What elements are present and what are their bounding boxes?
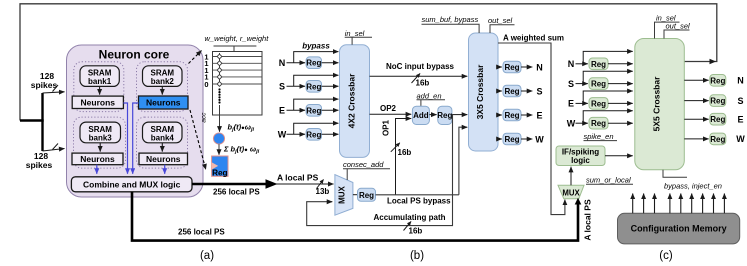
svg-text:E: E [568,99,574,109]
svg-text:OP2: OP2 [380,104,397,113]
group: dotted pair box bank3 [74,117,126,168]
wire: spike feedback loop (5X5 crossbar output to top border, down left side) [20,4,717,121]
svg-text:Reg: Reg [504,111,519,120]
wire: local PS bypass vertical into crossbar [459,127,467,195]
wire: out_sel control (c) [664,30,690,39]
svg-text:spikes: spikes [31,80,58,90]
block: Configuration Memory [618,213,740,244]
node: thick arrowhead (b) [266,179,278,189]
svg-text:Reg: Reg [306,82,321,91]
label: bit values 1 1 1 1 0 [204,52,208,89]
wire: consec_add control [343,168,390,170]
wire: w_weight/r_weight bracket into array [214,45,257,47]
svg-text:w_weight, r_weight: w_weight, r_weight [205,34,270,43]
svg-text:Reg: Reg [591,60,606,69]
wire: dashed zoom callout to accumulator Reg [190,110,206,170]
wire: W bypass over Reg (c) [583,111,633,123]
wire: SRAM bank1 to Neurons [99,86,101,94]
wire: Neurons bank4 to Combine (blue) [164,165,166,174]
wire: E input to Reg (b) [287,109,306,111]
wire: out_sel control (b) [490,25,515,33]
wire: N input to Reg (c) [576,63,588,65]
block: out Reg N (c) [710,75,726,87]
svg-text:MUX: MUX [337,185,346,203]
block: Combine and MUX logic [71,177,192,192]
wire: 3X5 to out Reg N [498,66,502,68]
wire: accumulate column line [219,53,221,87]
wire: 5X5 to out Reg E [684,118,708,120]
wire: Neurons bank3 to Combine (blue) [96,165,98,174]
block: IF/spiking logic [556,146,605,166]
wire: SRAM bank2 to Neurons [161,86,163,94]
svg-text:S: S [568,79,574,89]
svg-text:Reg: Reg [591,80,606,89]
block: local PS Reg (b) [358,188,376,201]
svg-text:NoC input bypass: NoC input bypass [386,62,455,71]
wire: out Reg S to port (b) [521,90,532,92]
svg-text:sum_or_local: sum_or_local [586,175,631,184]
wire: E bypass over Reg (b) [294,99,339,110]
wire: 3X5 to out Reg E [498,114,502,116]
block: input Reg S (c) [589,78,608,90]
svg-text:3X5 Crossbar: 3X5 Crossbar [475,64,485,119]
wire: SRAM bank3 to Neurons [99,143,101,152]
svg-text:256 local PS: 256 local PS [178,227,225,236]
wire: MUX to IF/spiking logic [570,167,572,186]
svg-text:acc: acc [201,112,208,123]
block: input Reg S (b) [306,81,321,93]
node: bus slash on accumulating path [404,222,412,231]
wire: A local PS thin wire into MUX [276,183,334,185]
node: arrowhead into sum MUX (c) [575,198,582,205]
svg-text:16b: 16b [409,226,423,235]
group: dotted pair box bank4 [137,117,188,168]
svg-text:S: S [279,82,285,92]
svg-text:4X2 Crossbar: 4X2 Crossbar [347,73,357,128]
block: out Reg N (b) [503,61,521,73]
wire: Add to Reg [429,114,436,116]
wire: NoC input bypass line to 3X5 crossbar [370,75,468,77]
svg-text:Σ bj(t)● ωji: Σ bj(t)● ωji [223,144,260,155]
wire: adder Reg to 3X5 crossbar [452,114,467,116]
svg-text:Neurons: Neurons [146,98,181,108]
wire: W input to Reg (c) [576,122,588,124]
wire: 5X5 to out Reg W [684,138,708,140]
block: input Reg W (c) [589,117,608,129]
wire: thick spike bus split (128 spikes) [20,93,44,151]
svg-text:Reg: Reg [504,63,519,72]
svg-text:Reg: Reg [591,119,606,128]
block: weight memory array [213,52,263,116]
wire: N input to Reg (b) [287,62,306,64]
wire: 3X5 to out Reg W [498,138,502,140]
svg-text:bank2: bank2 [151,77,175,86]
svg-text:5X5 Crossbar: 5X5 Crossbar [652,76,662,131]
block: 5X5 Crossbar [635,39,685,170]
wire: S input to Reg (b) [287,85,306,87]
block: Neurons highlighted (bank2) [139,96,189,109]
block: Neurons (bank4) [139,153,188,165]
svg-text:out_sel: out_sel [666,21,691,30]
svg-text:(a): (a) [200,250,214,262]
wire: S input to Reg (c) [576,83,588,85]
svg-text:N: N [737,76,744,86]
block: out Reg E (c) [710,113,726,125]
svg-text:bank3: bank3 [89,133,113,142]
wire: 256 local PS thick arrow (to section b) [192,183,266,186]
node: synapse diamond row5 [217,82,222,87]
wire: S bypass over Reg (b) [294,75,339,86]
block: 3X5 Crossbar [469,33,499,151]
svg-text:Reg: Reg [212,168,227,177]
block: input Reg W (b) [306,129,321,141]
svg-text:N: N [568,59,575,69]
block: Neurons (bank3) [72,153,123,165]
wire: 5X5 to out Reg S [684,100,708,102]
wire: IF/spiking logic to 5X5 crossbar [605,155,633,157]
svg-text:A local PS: A local PS [583,199,593,241]
node: synapse diamond row3 [217,68,222,73]
wire: Reg W to crossbar (b) [322,133,339,135]
wire: A weighted sum line to green MUX [498,43,565,215]
wire: N bypass over Reg (b) [294,52,339,63]
svg-text:Neuron core: Neuron core [99,48,170,62]
svg-text:Configuration Memory: Configuration Memory [631,224,727,234]
svg-text:E: E [737,115,743,125]
wire: sum_or_local underline [586,183,633,185]
block: input Reg E (c) [589,98,608,110]
wire: S bypass over Reg (c) [583,71,633,83]
block: SRAM bank3 [80,122,121,143]
block: out Reg S (b) [503,85,521,97]
block: Neurons (bank1) [72,96,123,108]
node: synapse diamond row2 [217,61,222,66]
svg-text:0: 0 [204,80,208,89]
wire: word line row 4 [213,76,263,78]
svg-text:out_sel: out_sel [488,16,513,25]
wire: consec_add drop into MUX [346,169,348,180]
svg-text:A local PS: A local PS [277,172,319,182]
svg-text:N: N [279,58,286,68]
wire: config stub from 5X5 bottom [663,170,687,178]
svg-text:Add: Add [413,111,429,120]
wire: N bypass over Reg (c) [583,51,633,63]
wire: W input to Reg (b) [287,133,306,135]
label: 128 spikes (lower) [26,151,53,170]
wire: array to accumulator circle [219,105,221,132]
svg-text:spikes: spikes [26,160,53,170]
wire: 256 local PS thick bus (bottom, to section c MUX) [132,192,578,241]
svg-text:A weighted sum: A weighted sum [503,33,564,42]
block: SRAM bank1 [80,66,119,87]
svg-text:Neurons: Neurons [146,154,181,164]
wire: circle to Reg [218,144,220,155]
svg-text:bank4: bank4 [151,133,175,142]
svg-text:Reg: Reg [437,111,452,120]
wire: OP2 output to Add [370,113,412,115]
block: out Reg E (b) [503,109,521,121]
wire: E input to Reg (c) [576,102,588,104]
svg-text:Reg: Reg [591,99,606,108]
group: dotted pair box bank2 [137,62,188,112]
wire: accumulating path (Reg output down and back to MUX) [307,115,453,226]
wire: out Reg N to port (b) [521,66,532,68]
wire: config control arrows [633,194,725,214]
wire: neurons bus left (blue) [123,103,127,174]
group: dotted pair box bank1 [74,62,124,112]
svg-text:S: S [737,96,743,106]
svg-text:sum_buf, bypass: sum_buf, bypass [422,15,479,24]
wire: out Reg W to port (b) [521,138,532,140]
svg-text:W: W [567,119,576,129]
svg-text:N: N [536,62,543,72]
svg-text:spike_en: spike_en [584,132,614,141]
wire: 3X5 to out Reg S [498,90,502,92]
label: 128 spikes (upper) [31,71,58,90]
wire: word line row 2 [213,62,263,64]
wire: word line row 1 [213,56,263,58]
svg-text:13b: 13b [316,187,330,196]
node: synapse diamond row1 [217,54,222,59]
wire: dashed zoom callout to weight array [189,51,202,64]
block: 4X2 Crossbar [340,45,370,158]
svg-text:W: W [278,130,287,140]
svg-text:(c): (c) [659,250,673,262]
block: accumulator Reg (blue square with clock notch) [212,156,228,177]
node: bus slash 16b on NoC line [412,74,421,84]
wire: 128 spikes arrow (upper) into neuron core [43,85,65,93]
wire: in_sel control into crossbar [345,36,372,38]
wire: Reg W to 5X5 crossbar [608,122,633,124]
svg-text:bj(t)●ωji: bj(t)●ωji [228,123,255,134]
wire: OP1 feedback up into Add [396,119,412,195]
block: SRAM bank2 [143,66,183,87]
wire: Reg E to 5X5 crossbar [608,102,633,104]
svg-text:Reg: Reg [359,191,374,200]
svg-text:Neurons: Neurons [81,97,116,107]
block: out Reg S (c) [710,95,726,107]
block: input Reg N (b) [306,57,321,69]
wire: out Reg E to port (b) [521,114,532,116]
block: out Reg W (b) [503,133,521,145]
wire: spike_en underline [584,140,618,142]
svg-text:OP1: OP1 [382,119,391,136]
wire: word line row 5 [213,83,263,85]
svg-text:Reg: Reg [306,130,321,139]
svg-text:Accumulating path: Accumulating path [374,213,446,222]
svg-text:E: E [279,106,285,116]
svg-text:256 local PS: 256 local PS [213,188,260,197]
svg-text:E: E [536,110,542,120]
wire: 5X5 to out Reg N [684,79,708,81]
block: input Reg N (c) [589,58,608,70]
wire: add_en drop [420,100,422,107]
node: synapse diamond row4 [217,74,222,79]
wire: in_sel drop [351,37,353,44]
wire: add_en control [417,99,446,101]
svg-text:Reg: Reg [710,76,725,85]
wire: Reg S to 5X5 crossbar [608,83,633,85]
block: local PS MUX (b) [335,175,353,216]
svg-text:consec_add: consec_add [343,160,384,169]
node: accumulator circle [213,133,224,144]
svg-text:in_sel: in_sel [345,29,365,38]
wire: in_sel control (c) [655,22,680,38]
svg-text:W: W [736,134,745,144]
svg-text:bypass, inject_en: bypass, inject_en [664,181,722,190]
node: bus slash on OP1 wire [391,143,400,152]
svg-text:Reg: Reg [306,59,321,68]
wire: vertical ellipsis dots in array [218,88,220,103]
block: sum MUX (c) [558,185,584,199]
wire: bracket drop [233,46,235,52]
svg-text:Local PS bypass: Local PS bypass [387,197,451,206]
wire: Reg S to crossbar (b) [322,85,339,87]
svg-text:bank1: bank1 [88,77,112,86]
svg-text:(b): (b) [410,250,424,262]
svg-text:Reg: Reg [710,97,725,106]
node: bus slash 13b [317,180,324,189]
svg-text:Reg: Reg [710,115,725,124]
block: SRAM bank4 [143,122,183,143]
wire: MUX to Reg (b bottom) [353,194,357,196]
svg-text:Reg: Reg [504,135,519,144]
svg-text:Reg: Reg [504,87,519,96]
svg-text:Combine and MUX logic: Combine and MUX logic [83,180,181,190]
svg-text:W: W [535,134,544,144]
block: adder Reg [437,106,452,124]
svg-text:S: S [536,86,542,96]
wire: word line row 3 [213,69,263,71]
svg-text:16b: 16b [416,78,430,87]
block: input Reg E (b) [306,105,321,117]
svg-text:Reg: Reg [306,106,321,115]
wire: Reg N to 5X5 crossbar [608,63,633,65]
block: out Reg W (c) [710,133,726,145]
svg-text:add_en: add_en [417,91,442,100]
svg-text:logic: logic [571,156,590,165]
svg-text:Reg: Reg [710,135,725,144]
wire: Reg E to crossbar (b) [322,109,339,111]
svg-text:bypass: bypass [302,42,330,51]
svg-text:16b: 16b [398,148,412,157]
svg-text:MUX: MUX [562,188,580,197]
wire: Reg N to crossbar (b) [322,62,339,64]
wire: sum_buf control [422,24,480,33]
wire: local PS bypass horizontal [376,194,459,196]
block: Add [412,106,429,124]
wire: 128 spikes arrow (lower) into neuron core [43,144,65,152]
wire: W bypass over Reg (b) [294,123,339,134]
wire: neurons bus right (blue) [133,103,139,174]
svg-text:Neurons: Neurons [80,154,115,164]
wire: E bypass over Reg (c) [583,91,633,103]
block: Neuron core container [67,45,204,197]
wire: SRAM bank4 to Neurons [161,143,163,152]
